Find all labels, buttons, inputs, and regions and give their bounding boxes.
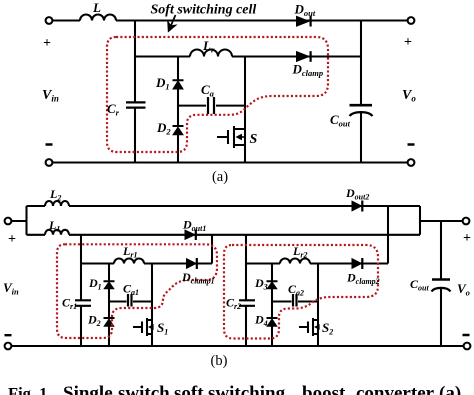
svg-text:Ca1: Ca1 bbox=[123, 282, 139, 298]
svg-text:Ca2: Ca2 bbox=[288, 282, 304, 298]
svg-text:D2: D2 bbox=[156, 120, 171, 137]
svg-text:L2: L2 bbox=[49, 187, 61, 203]
svg-text:D2: D2 bbox=[87, 313, 101, 329]
svg-text:+: + bbox=[43, 36, 51, 51]
svg-text:switch: switch bbox=[118, 383, 170, 395]
svg-text:Cr: Cr bbox=[107, 101, 120, 118]
svg-text:+: + bbox=[463, 231, 471, 246]
svg-text:Single: Single bbox=[63, 383, 113, 395]
svg-text:Fig. 1.: Fig. 1. bbox=[8, 384, 52, 395]
svg-text:Dclamp1: Dclamp1 bbox=[181, 270, 215, 286]
svg-text:Soft switching cell: Soft switching cell bbox=[151, 3, 257, 18]
svg-text:converter: converter bbox=[356, 383, 435, 395]
svg-text:+: + bbox=[8, 232, 16, 247]
svg-text:D1: D1 bbox=[88, 276, 102, 292]
svg-text:S2: S2 bbox=[322, 320, 333, 337]
svg-text:L1: L1 bbox=[48, 218, 60, 234]
svg-text:D1: D1 bbox=[155, 75, 170, 92]
svg-text:Dclamp2: Dclamp2 bbox=[346, 271, 380, 287]
svg-text:Cout: Cout bbox=[410, 277, 429, 293]
svg-text:Vo: Vo bbox=[402, 88, 416, 104]
svg-text:Dout2: Dout2 bbox=[345, 186, 369, 202]
svg-text:(a): (a) bbox=[439, 383, 461, 395]
svg-text:Vo: Vo bbox=[457, 281, 470, 298]
svg-text:L: L bbox=[92, 0, 101, 15]
svg-text:Dclamp: Dclamp bbox=[292, 62, 324, 79]
svg-text:Dout1: Dout1 bbox=[182, 218, 206, 234]
svg-text:switching: switching bbox=[208, 383, 286, 395]
svg-text:D3: D3 bbox=[254, 276, 268, 292]
svg-text:Cr2: Cr2 bbox=[226, 296, 241, 312]
svg-text:Lr1: Lr1 bbox=[122, 244, 137, 260]
svg-text:boost: boost bbox=[302, 383, 346, 395]
svg-text:Ca: Ca bbox=[201, 82, 215, 99]
svg-text:Cout: Cout bbox=[330, 112, 351, 129]
svg-text:soft: soft bbox=[174, 383, 204, 395]
svg-text:+: + bbox=[404, 35, 412, 50]
svg-text:S: S bbox=[250, 132, 258, 147]
svg-text:(a): (a) bbox=[212, 169, 228, 185]
svg-text:Lr2: Lr2 bbox=[292, 244, 307, 260]
svg-text:S1: S1 bbox=[157, 320, 168, 337]
svg-text:Cr1: Cr1 bbox=[62, 296, 77, 312]
svg-text:Lr: Lr bbox=[202, 38, 215, 55]
svg-text:Dout: Dout bbox=[294, 2, 316, 19]
svg-text:D4: D4 bbox=[254, 313, 268, 329]
svg-text:Vin: Vin bbox=[42, 88, 59, 104]
svg-text:Vin: Vin bbox=[3, 280, 19, 297]
svg-text:(b): (b) bbox=[211, 353, 228, 369]
